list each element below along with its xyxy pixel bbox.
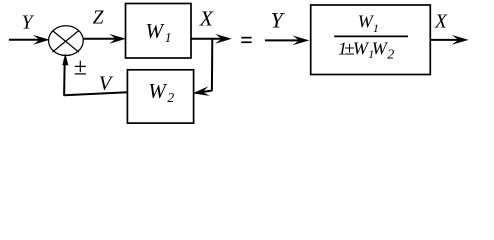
svg-text:±: ± [74,55,87,81]
value label W1 [146,19,172,45]
svg-text:X: X [434,11,448,32]
block W2 [127,70,193,123]
svg-text:W: W [148,79,168,103]
svg-text:W: W [146,19,166,43]
svg-text:2: 2 [387,47,394,62]
arrowhead into summing junction bottom [62,53,68,65]
arrowhead into summing junction [33,35,50,45]
svg-text:Y: Y [22,12,35,33]
summing junction (circle with X cross) [49,26,84,56]
wire: W1 output to X [191,38,228,40]
arrowhead into equivalent block [293,36,310,46]
block W1 [126,4,192,59]
svg-text:2: 2 [167,90,174,105]
svg-text:1: 1 [165,30,172,45]
wire: summing junction to W1 [83,38,121,40]
value label denominator 1+-W1W2 [338,38,394,62]
arrowhead output X left [215,34,232,44]
equals sign [241,37,251,43]
svg-text:X: X [199,7,214,31]
svg-text:1: 1 [373,21,379,35]
block W1/(1+-W1W2) equivalent [311,5,431,75]
fraction bar [334,35,408,37]
wire: Y input right diagram [265,39,303,41]
arrowhead into W1 [109,34,126,44]
arrowhead into W2 [192,86,210,98]
arrowhead output X right [452,35,469,45]
wire: feedback up to summing junction [63,59,66,96]
wire: X output right diagram [430,39,463,41]
wire: branch down from X node [211,38,213,91]
value label W2 [148,79,174,105]
wire: elbow into W2 right side [201,91,213,93]
wire: Y input line [9,39,45,41]
svg-text:Z: Z [93,8,104,29]
svg-text:Y: Y [271,7,286,32]
svg-text:V: V [99,73,114,95]
value label numerator W1 [358,12,379,35]
wire: W2 output feedback to left [64,92,128,95]
